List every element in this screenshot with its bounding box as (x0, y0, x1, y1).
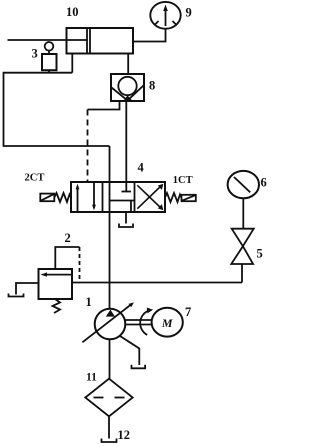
svg-text:10: 10 (66, 5, 79, 19)
svg-text:11: 11 (86, 372, 97, 384)
svg-text:8: 8 (149, 79, 155, 93)
svg-text:5: 5 (257, 247, 263, 261)
svg-text:7: 7 (185, 305, 191, 319)
svg-text:2CT: 2CT (25, 173, 45, 184)
svg-text:9: 9 (186, 6, 192, 20)
svg-text:1CT: 1CT (173, 175, 193, 186)
svg-text:4: 4 (138, 161, 145, 175)
svg-text:12: 12 (118, 428, 131, 442)
svg-text:2: 2 (65, 231, 71, 245)
svg-text:M: M (161, 316, 173, 330)
svg-text:3: 3 (32, 47, 38, 61)
svg-text:1: 1 (86, 295, 92, 309)
svg-text:6: 6 (261, 176, 267, 190)
